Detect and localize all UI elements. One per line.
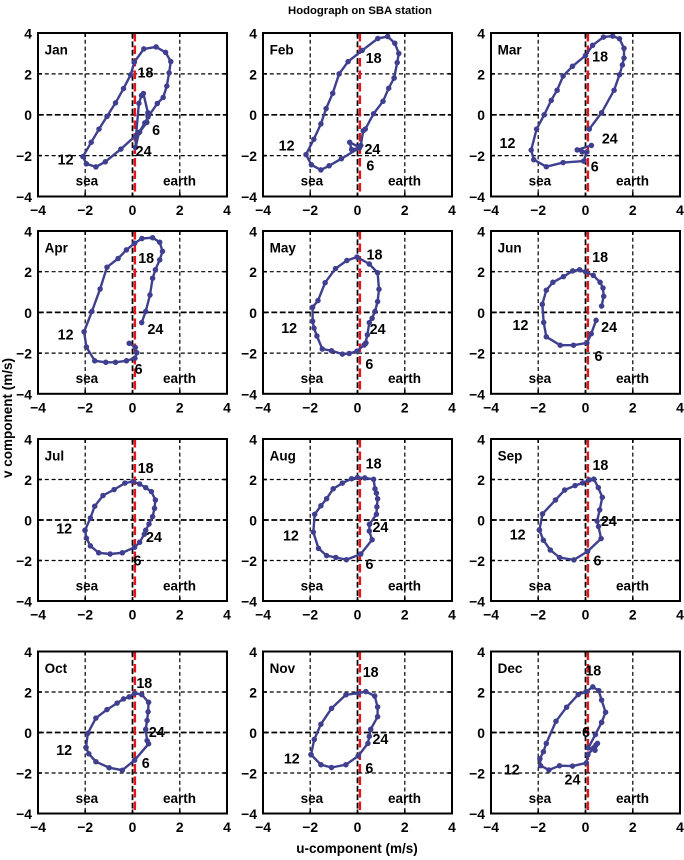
svg-text:2: 2 bbox=[629, 202, 637, 218]
svg-text:earth: earth bbox=[388, 791, 421, 806]
svg-text:−4: −4 bbox=[483, 399, 499, 415]
svg-text:−4: −4 bbox=[241, 594, 257, 610]
svg-text:24: 24 bbox=[601, 514, 617, 530]
svg-text:0: 0 bbox=[582, 607, 590, 623]
svg-text:Sep: Sep bbox=[498, 448, 523, 463]
svg-text:earth: earth bbox=[616, 174, 649, 189]
svg-text:−4: −4 bbox=[469, 189, 485, 205]
svg-text:Oct: Oct bbox=[45, 661, 68, 676]
svg-text:12: 12 bbox=[56, 743, 72, 759]
svg-text:24: 24 bbox=[372, 732, 388, 748]
svg-text:earth: earth bbox=[388, 174, 421, 189]
svg-text:−4: −4 bbox=[30, 202, 46, 218]
subplot Apr bbox=[16, 224, 231, 416]
svg-text:earth: earth bbox=[616, 371, 649, 386]
svg-text:18: 18 bbox=[592, 49, 608, 65]
svg-text:−4: −4 bbox=[241, 189, 257, 205]
subplot Sep bbox=[469, 432, 684, 623]
svg-text:−2: −2 bbox=[77, 607, 93, 623]
svg-text:−2: −2 bbox=[16, 766, 32, 782]
svg-text:2: 2 bbox=[477, 264, 485, 280]
svg-text:18: 18 bbox=[592, 250, 608, 266]
svg-text:−4: −4 bbox=[30, 819, 46, 835]
svg-text:−4: −4 bbox=[241, 386, 257, 402]
svg-text:−4: −4 bbox=[483, 819, 499, 835]
svg-text:2: 2 bbox=[24, 472, 32, 488]
svg-text:12: 12 bbox=[510, 527, 526, 543]
svg-text:4: 4 bbox=[448, 202, 456, 218]
svg-text:0: 0 bbox=[24, 305, 32, 321]
svg-text:6: 6 bbox=[366, 557, 374, 573]
svg-text:−2: −2 bbox=[77, 399, 93, 415]
svg-text:−2: −2 bbox=[302, 399, 318, 415]
svg-text:4: 4 bbox=[249, 224, 257, 240]
svg-text:0: 0 bbox=[354, 819, 362, 835]
subplot Jun bbox=[469, 224, 684, 416]
svg-text:0: 0 bbox=[249, 107, 257, 123]
svg-text:2: 2 bbox=[477, 66, 485, 82]
svg-text:−4: −4 bbox=[469, 386, 485, 402]
subplot May bbox=[241, 224, 456, 416]
svg-text:2: 2 bbox=[401, 202, 409, 218]
svg-text:0: 0 bbox=[129, 202, 137, 218]
subplot Nov bbox=[241, 644, 456, 835]
svg-text:−4: −4 bbox=[255, 819, 271, 835]
svg-text:4: 4 bbox=[24, 644, 32, 660]
svg-text:18: 18 bbox=[138, 461, 154, 477]
svg-text:4: 4 bbox=[223, 819, 231, 835]
svg-text:earth: earth bbox=[388, 578, 421, 593]
svg-text:0: 0 bbox=[354, 202, 362, 218]
svg-text:Jul: Jul bbox=[45, 448, 65, 463]
svg-text:4: 4 bbox=[477, 26, 485, 42]
svg-text:4: 4 bbox=[477, 432, 485, 448]
svg-text:earth: earth bbox=[163, 791, 196, 806]
svg-text:−4: −4 bbox=[255, 607, 271, 623]
svg-text:6: 6 bbox=[142, 756, 150, 772]
svg-text:sea: sea bbox=[76, 791, 99, 806]
svg-text:0: 0 bbox=[354, 399, 362, 415]
svg-text:2: 2 bbox=[176, 202, 184, 218]
svg-text:12: 12 bbox=[58, 328, 74, 344]
svg-text:2: 2 bbox=[176, 607, 184, 623]
svg-text:−2: −2 bbox=[16, 148, 32, 164]
svg-text:24: 24 bbox=[364, 142, 380, 158]
svg-text:18: 18 bbox=[592, 458, 608, 474]
svg-text:4: 4 bbox=[676, 819, 684, 835]
svg-text:−2: −2 bbox=[241, 553, 257, 569]
svg-text:6: 6 bbox=[591, 159, 599, 175]
svg-text:−4: −4 bbox=[30, 399, 46, 415]
svg-text:2: 2 bbox=[249, 685, 257, 701]
svg-text:earth: earth bbox=[616, 791, 649, 806]
subplot Oct bbox=[16, 644, 231, 835]
svg-text:u-component (m/s): u-component (m/s) bbox=[296, 841, 418, 856]
svg-text:12: 12 bbox=[279, 139, 295, 155]
svg-text:4: 4 bbox=[249, 432, 257, 448]
svg-text:0: 0 bbox=[249, 725, 257, 741]
svg-text:sea: sea bbox=[301, 371, 324, 386]
svg-text:−2: −2 bbox=[469, 346, 485, 362]
svg-text:2: 2 bbox=[249, 472, 257, 488]
svg-text:0: 0 bbox=[129, 399, 137, 415]
svg-text:−4: −4 bbox=[30, 607, 46, 623]
svg-text:4: 4 bbox=[24, 224, 32, 240]
svg-text:0: 0 bbox=[24, 107, 32, 123]
svg-text:Dec: Dec bbox=[498, 661, 523, 676]
svg-text:Jan: Jan bbox=[45, 43, 68, 58]
svg-text:earth: earth bbox=[616, 578, 649, 593]
svg-text:−2: −2 bbox=[469, 766, 485, 782]
svg-text:−4: −4 bbox=[255, 399, 271, 415]
svg-text:−4: −4 bbox=[241, 806, 257, 822]
svg-text:4: 4 bbox=[477, 224, 485, 240]
svg-text:24: 24 bbox=[372, 520, 388, 536]
svg-text:−2: −2 bbox=[530, 819, 546, 835]
svg-text:4: 4 bbox=[24, 26, 32, 42]
svg-text:Apr: Apr bbox=[45, 241, 69, 256]
svg-text:0: 0 bbox=[354, 607, 362, 623]
subplot Jan bbox=[16, 26, 231, 219]
svg-text:2: 2 bbox=[249, 264, 257, 280]
svg-text:earth: earth bbox=[163, 174, 196, 189]
svg-text:−2: −2 bbox=[302, 202, 318, 218]
svg-text:0: 0 bbox=[249, 513, 257, 529]
svg-text:2: 2 bbox=[629, 819, 637, 835]
svg-text:sea: sea bbox=[76, 371, 99, 386]
svg-text:0: 0 bbox=[477, 305, 485, 321]
svg-text:6: 6 bbox=[594, 554, 602, 570]
svg-text:4: 4 bbox=[448, 399, 456, 415]
svg-text:6: 6 bbox=[135, 362, 143, 378]
svg-text:12: 12 bbox=[284, 752, 300, 768]
svg-text:12: 12 bbox=[283, 528, 299, 544]
svg-text:sea: sea bbox=[529, 174, 552, 189]
svg-text:2: 2 bbox=[249, 66, 257, 82]
svg-text:6: 6 bbox=[365, 357, 373, 373]
subplot Dec bbox=[469, 644, 684, 835]
svg-text:4: 4 bbox=[676, 202, 684, 218]
svg-text:2: 2 bbox=[24, 66, 32, 82]
svg-text:18: 18 bbox=[363, 665, 379, 681]
svg-text:−4: −4 bbox=[255, 202, 271, 218]
svg-text:−2: −2 bbox=[241, 766, 257, 782]
svg-text:−2: −2 bbox=[302, 819, 318, 835]
svg-text:sea: sea bbox=[529, 578, 552, 593]
svg-text:0: 0 bbox=[582, 819, 590, 835]
svg-text:v component (m/s): v component (m/s) bbox=[0, 358, 15, 478]
svg-text:−2: −2 bbox=[241, 148, 257, 164]
svg-text:24: 24 bbox=[147, 322, 163, 338]
svg-text:24: 24 bbox=[149, 725, 165, 741]
svg-text:12: 12 bbox=[56, 522, 72, 538]
svg-text:Nov: Nov bbox=[270, 661, 296, 676]
svg-text:earth: earth bbox=[163, 578, 196, 593]
svg-text:18: 18 bbox=[585, 664, 601, 680]
svg-text:earth: earth bbox=[163, 371, 196, 386]
svg-text:18: 18 bbox=[366, 457, 382, 473]
svg-text:12: 12 bbox=[513, 318, 529, 334]
svg-text:2: 2 bbox=[477, 685, 485, 701]
svg-text:−4: −4 bbox=[483, 607, 499, 623]
svg-text:0: 0 bbox=[477, 725, 485, 741]
svg-text:18: 18 bbox=[138, 251, 154, 267]
svg-text:−2: −2 bbox=[469, 553, 485, 569]
svg-text:24: 24 bbox=[370, 322, 386, 338]
svg-text:4: 4 bbox=[223, 202, 231, 218]
svg-text:0: 0 bbox=[24, 725, 32, 741]
svg-text:sea: sea bbox=[76, 578, 99, 593]
svg-text:6: 6 bbox=[582, 725, 590, 741]
svg-text:earth: earth bbox=[388, 371, 421, 386]
svg-text:sea: sea bbox=[301, 174, 324, 189]
svg-text:12: 12 bbox=[58, 152, 74, 168]
svg-text:4: 4 bbox=[477, 644, 485, 660]
svg-text:sea: sea bbox=[301, 791, 324, 806]
subplot Feb bbox=[241, 26, 456, 219]
svg-text:−2: −2 bbox=[16, 553, 32, 569]
svg-text:Feb: Feb bbox=[270, 43, 294, 58]
svg-text:Mar: Mar bbox=[498, 43, 523, 58]
svg-text:−4: −4 bbox=[469, 806, 485, 822]
svg-text:18: 18 bbox=[138, 66, 154, 82]
svg-text:4: 4 bbox=[448, 607, 456, 623]
subplot Mar bbox=[469, 26, 684, 219]
svg-text:4: 4 bbox=[676, 399, 684, 415]
svg-text:6: 6 bbox=[134, 554, 142, 570]
svg-text:6: 6 bbox=[366, 159, 374, 175]
svg-text:4: 4 bbox=[24, 432, 32, 448]
svg-text:12: 12 bbox=[504, 763, 520, 779]
svg-text:−2: −2 bbox=[77, 819, 93, 835]
svg-text:2: 2 bbox=[629, 607, 637, 623]
svg-text:−4: −4 bbox=[16, 594, 32, 610]
svg-text:−4: −4 bbox=[16, 189, 32, 205]
svg-text:24: 24 bbox=[136, 144, 152, 160]
svg-text:0: 0 bbox=[582, 399, 590, 415]
svg-text:−4: −4 bbox=[16, 806, 32, 822]
svg-text:sea: sea bbox=[529, 791, 552, 806]
svg-text:0: 0 bbox=[24, 513, 32, 529]
svg-text:Aug: Aug bbox=[270, 448, 296, 463]
svg-text:Hodograph on SBA station: Hodograph on SBA station bbox=[288, 5, 432, 17]
svg-text:sea: sea bbox=[76, 174, 99, 189]
svg-text:−2: −2 bbox=[241, 346, 257, 362]
svg-text:−2: −2 bbox=[530, 399, 546, 415]
subplot Aug bbox=[241, 432, 456, 623]
svg-text:6: 6 bbox=[152, 123, 160, 139]
svg-text:6: 6 bbox=[365, 761, 373, 777]
svg-text:12: 12 bbox=[500, 136, 516, 152]
svg-text:2: 2 bbox=[477, 472, 485, 488]
svg-text:0: 0 bbox=[582, 202, 590, 218]
svg-text:2: 2 bbox=[401, 607, 409, 623]
svg-text:0: 0 bbox=[129, 819, 137, 835]
svg-text:4: 4 bbox=[249, 26, 257, 42]
svg-text:−4: −4 bbox=[483, 202, 499, 218]
svg-text:−2: −2 bbox=[16, 346, 32, 362]
svg-text:−2: −2 bbox=[530, 202, 546, 218]
svg-text:4: 4 bbox=[223, 399, 231, 415]
svg-text:−2: −2 bbox=[302, 607, 318, 623]
svg-text:sea: sea bbox=[529, 371, 552, 386]
svg-text:2: 2 bbox=[176, 399, 184, 415]
svg-text:18: 18 bbox=[367, 247, 383, 263]
svg-text:0: 0 bbox=[477, 513, 485, 529]
svg-text:24: 24 bbox=[602, 132, 618, 148]
svg-text:4: 4 bbox=[448, 819, 456, 835]
svg-text:2: 2 bbox=[629, 399, 637, 415]
svg-text:2: 2 bbox=[401, 819, 409, 835]
svg-text:−4: −4 bbox=[16, 386, 32, 402]
subplot Jul bbox=[16, 432, 231, 623]
svg-text:−2: −2 bbox=[469, 148, 485, 164]
svg-text:24: 24 bbox=[601, 320, 617, 336]
svg-text:12: 12 bbox=[281, 321, 297, 337]
svg-text:−4: −4 bbox=[469, 594, 485, 610]
svg-text:6: 6 bbox=[595, 349, 603, 365]
svg-text:0: 0 bbox=[477, 107, 485, 123]
svg-text:−2: −2 bbox=[77, 202, 93, 218]
svg-text:0: 0 bbox=[249, 305, 257, 321]
svg-text:2: 2 bbox=[176, 819, 184, 835]
svg-text:4: 4 bbox=[249, 644, 257, 660]
svg-text:2: 2 bbox=[24, 685, 32, 701]
svg-text:24: 24 bbox=[146, 530, 162, 546]
svg-text:4: 4 bbox=[676, 607, 684, 623]
svg-text:Jun: Jun bbox=[498, 241, 522, 256]
svg-text:24: 24 bbox=[565, 772, 581, 788]
svg-text:−2: −2 bbox=[530, 607, 546, 623]
svg-text:0: 0 bbox=[129, 607, 137, 623]
svg-text:May: May bbox=[270, 241, 297, 256]
svg-text:18: 18 bbox=[136, 676, 152, 692]
svg-text:18: 18 bbox=[366, 51, 382, 67]
svg-text:2: 2 bbox=[401, 399, 409, 415]
svg-text:sea: sea bbox=[301, 578, 324, 593]
svg-text:2: 2 bbox=[24, 264, 32, 280]
svg-text:4: 4 bbox=[223, 607, 231, 623]
